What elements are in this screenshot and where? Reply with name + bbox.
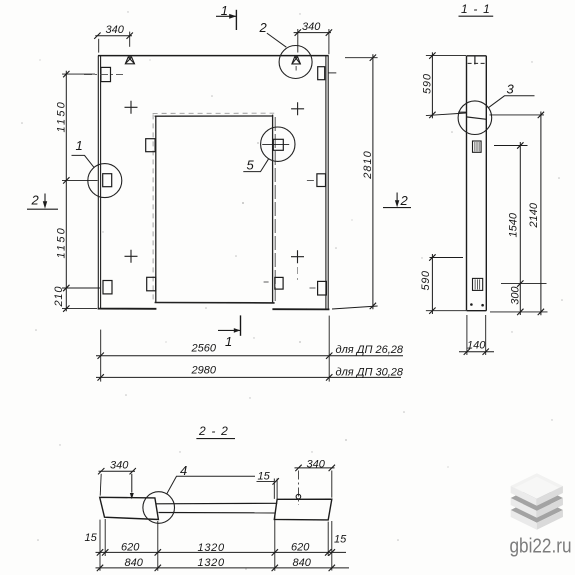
callout label 5: [243, 158, 268, 173]
dimension 2810 right: [332, 54, 378, 309]
node centering cross top-right: [291, 102, 304, 115]
callout label 2: [259, 20, 287, 47]
svg-text:1150: 1150: [56, 100, 68, 132]
section mark 1 top: [216, 3, 236, 30]
svg-text:1150: 1150: [56, 226, 68, 258]
embed plate M5 right edge middle: [307, 174, 326, 187]
detail circle 2: [279, 46, 312, 79]
svg-text:для ДП 30,28: для ДП 30,28: [336, 366, 404, 378]
dimension 2560 bottom row 1: [96, 316, 403, 382]
svg-text:340: 340: [302, 21, 321, 33]
embed plate M10 opening right edge bottom: [264, 277, 283, 289]
dimension chain 1150/1150/210 left: [53, 71, 100, 312]
svg-text:15: 15: [85, 532, 98, 544]
callout label 4: [167, 463, 255, 494]
svg-text:2: 2: [259, 20, 268, 35]
lifting loop P1 at top edge left: [125, 57, 134, 64]
svg-text:2980: 2980: [191, 365, 217, 377]
detail circle 4: [143, 492, 175, 524]
svg-text:590: 590: [420, 270, 432, 290]
dimension 15 right end: [328, 521, 347, 571]
svg-text:1540: 1540: [508, 212, 520, 237]
dimension 1540 section: [494, 142, 528, 315]
dimension 340 section 2-2 right: [295, 458, 336, 505]
svg-text:5: 5: [247, 158, 255, 173]
svg-text:15: 15: [334, 534, 347, 546]
embed plate M8 opening left edge bottom: [147, 277, 156, 291]
svg-text:1320: 1320: [198, 542, 225, 554]
dimension 300 section: [501, 284, 547, 316]
lifting loop P2 at top edge right: [292, 57, 301, 71]
svg-text:2: 2: [400, 193, 409, 208]
section mark 2 left: [27, 193, 58, 210]
svg-text:для ДП 26,28: для ДП 26,28: [336, 344, 404, 356]
embed plate M9 opening right edge top: [262, 139, 289, 150]
svg-text:15: 15: [258, 470, 271, 482]
embed plate section upper: [473, 141, 482, 152]
detail circle 5: [261, 127, 295, 161]
callout label 3: [488, 82, 534, 108]
lifting loop in section top: [468, 56, 486, 65]
svg-text:340: 340: [106, 24, 125, 36]
logo gbi22.ru icon: [511, 473, 563, 530]
dimension 15 web offset: [257, 470, 279, 499]
detail circle 3: [458, 101, 492, 135]
node door opening outline: [155, 115, 275, 303]
svg-text:gbi22.ru: gbi22.ru: [510, 535, 572, 558]
embed plate M4 right edge top: [318, 67, 337, 80]
svg-text:4: 4: [180, 463, 187, 478]
wire centerline of M1: [84, 73, 123, 75]
svg-text:620: 620: [121, 541, 140, 553]
svg-text:590: 590: [422, 73, 434, 94]
svg-text:2 - 2: 2 - 2: [198, 424, 229, 438]
svg-text:3: 3: [507, 82, 515, 97]
wire panel left edge (double line): [97, 56, 99, 309]
node centering cross bottom-right: [291, 250, 304, 280]
node centering cross top-left: [125, 101, 138, 114]
node column outline section 1-1: [467, 56, 487, 311]
wire panel right edge (double line): [325, 56, 327, 310]
dimension 590 section top: [422, 52, 467, 118]
svg-text:2810: 2810: [362, 150, 374, 179]
node reinforcement dots: [470, 303, 484, 306]
svg-text:1 - 1: 1 - 1: [461, 2, 491, 16]
svg-text:140: 140: [467, 340, 486, 352]
node centering cross bottom-left: [125, 250, 138, 263]
detail circle 1: [88, 164, 122, 198]
wire panel top edge: [98, 55, 329, 57]
dimension 140 section: [459, 315, 494, 355]
svg-text:340: 340: [110, 459, 129, 471]
svg-text:840: 840: [293, 557, 312, 569]
dimension 340 top-right: [294, 21, 333, 54]
embed plate M1 left edge top: [101, 67, 111, 81]
wire panel bottom edge right strip: [272, 308, 329, 310]
dimension 340 section 2-2 left: [98, 459, 136, 499]
dimension 340 top-left: [94, 24, 133, 53]
svg-text:2: 2: [31, 193, 40, 208]
svg-text:2140: 2140: [528, 202, 540, 228]
svg-text:1: 1: [225, 334, 232, 349]
node right rib block section 2-2: [274, 499, 332, 520]
section mark 1 bottom: [218, 315, 241, 349]
embed plate M2 left edge middle: [103, 174, 112, 187]
wire extension lines middle section 2-2: [158, 515, 275, 571]
svg-text:620: 620: [291, 541, 310, 553]
svg-text:340: 340: [307, 458, 326, 470]
svg-text:1320: 1320: [198, 557, 225, 569]
dimension row 620/1320/620: [96, 541, 347, 555]
section title 2-2: [196, 424, 235, 439]
dimension row 840/1320/840: [96, 557, 350, 571]
svg-text:300: 300: [510, 286, 522, 305]
callout label 1: [72, 138, 94, 167]
embed plate M6 right edge bottom: [310, 281, 327, 295]
embed plate M7 opening left edge top: [146, 139, 155, 152]
dimension 15 left end: [85, 519, 106, 571]
dimension 2980 bottom row 2: [96, 365, 401, 381]
svg-text:1: 1: [76, 138, 83, 153]
dimension 590 section bottom: [420, 254, 466, 314]
node left rib block section 2-2: [100, 497, 159, 519]
svg-text:210: 210: [53, 286, 65, 308]
embed plate section lower: [473, 278, 483, 290]
svg-text:2560: 2560: [191, 342, 217, 354]
embed plate M3 left edge bottom: [103, 281, 112, 294]
svg-text:840: 840: [125, 557, 144, 569]
section mark 2 right: [383, 193, 411, 208]
wire opening ghost dashed lines: [153, 113, 275, 302]
dimension 2140 section: [490, 112, 548, 316]
section title 1-1: [459, 2, 494, 16]
wire panel bottom edge left strip: [98, 308, 157, 310]
node web slab section 2-2: [156, 503, 277, 513]
